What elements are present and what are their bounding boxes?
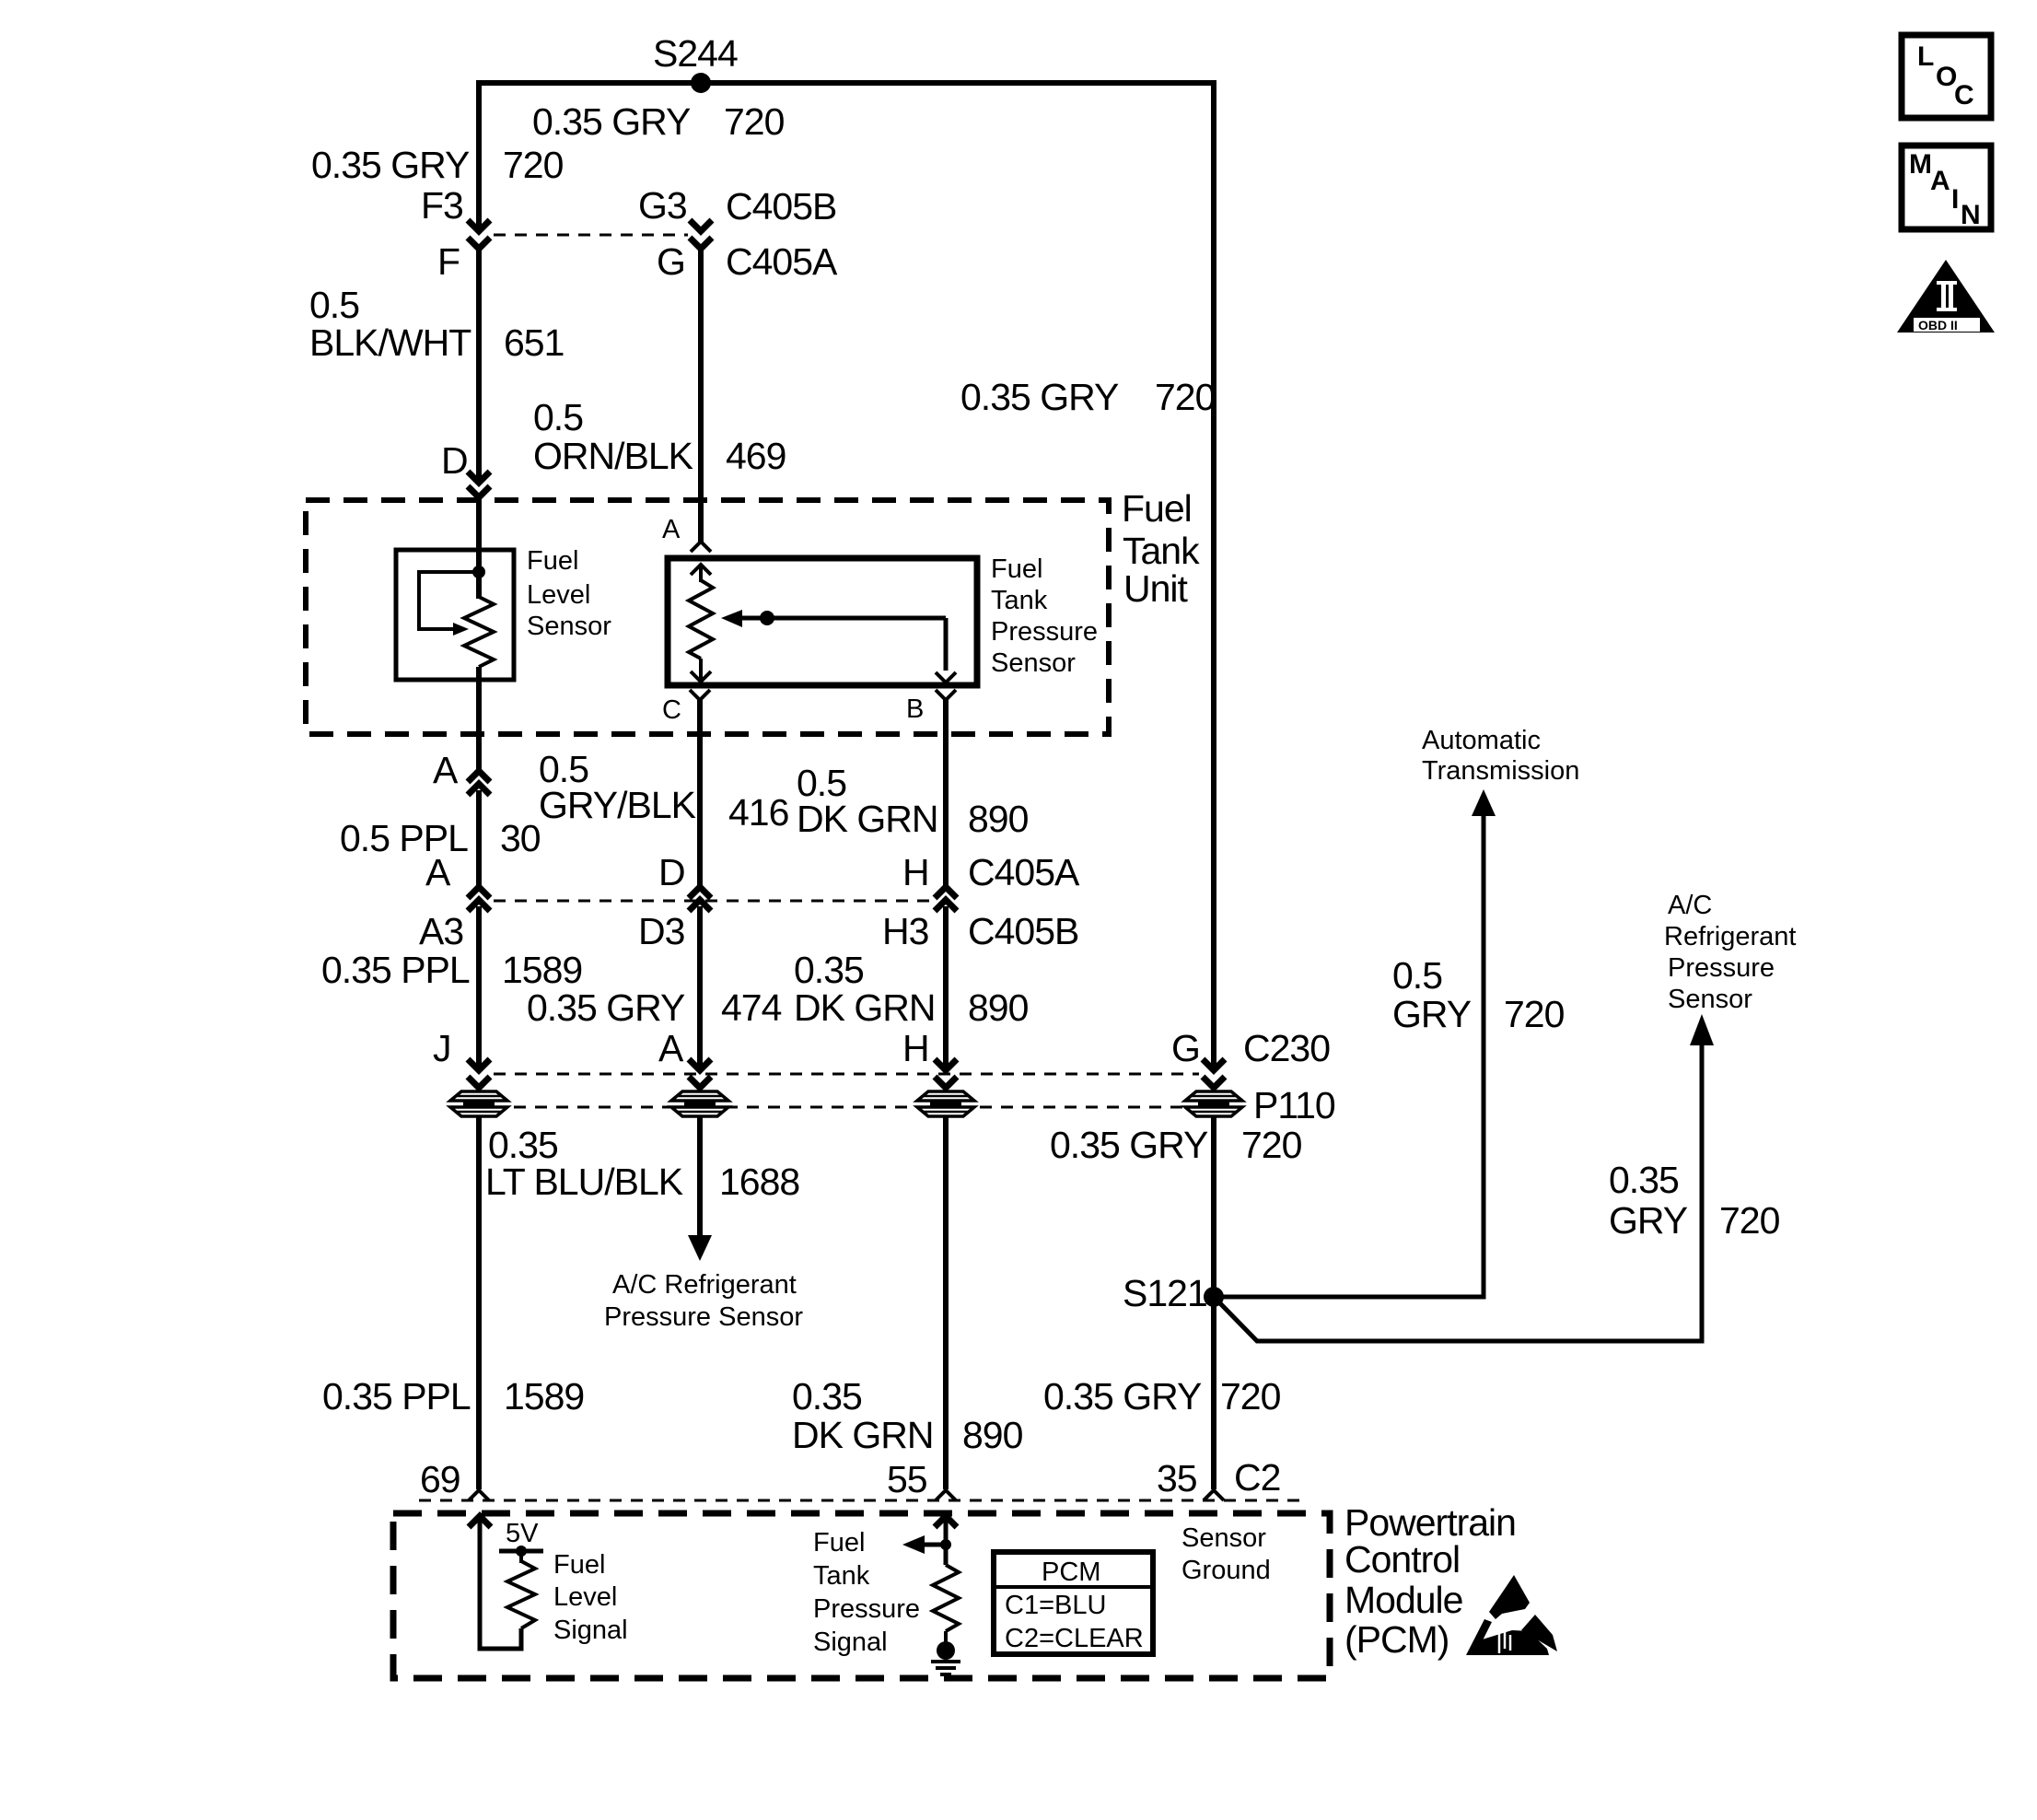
svg-text:0.35 PPL: 0.35 PPL <box>321 949 470 991</box>
svg-text:Level: Level <box>553 1582 617 1612</box>
svg-text:1688: 1688 <box>719 1161 799 1203</box>
PCM connector table box <box>994 1552 1153 1654</box>
svg-text:Fuel: Fuel <box>527 546 578 576</box>
connector C230 A arrow and fork <box>689 1059 711 1088</box>
automatic transmission label <box>1422 726 1579 786</box>
sensor ground label <box>1181 1523 1271 1585</box>
svg-text:35: 35 <box>1157 1457 1197 1499</box>
pin A label C405A <box>425 851 451 893</box>
value label 0.35 GRY 720 lower <box>1043 1375 1281 1417</box>
wire W1 C405B to C230 <box>476 906 482 1070</box>
svg-text:0.5: 0.5 <box>533 396 583 438</box>
wire W4 right vertical x=1318 <box>1211 80 1216 1070</box>
svg-text:DK GRN: DK GRN <box>792 1414 933 1456</box>
pin G label <box>657 240 685 283</box>
svg-text:S121: S121 <box>1123 1272 1207 1314</box>
svg-text:0.35 GRY: 0.35 GRY <box>532 100 691 143</box>
svg-text:Tank: Tank <box>813 1561 870 1591</box>
svg-text:5V: 5V <box>506 1519 539 1548</box>
resistor fuel level signal <box>507 1561 535 1628</box>
svg-text:890: 890 <box>968 986 1029 1029</box>
wire W3 pin B down to C405A <box>943 698 949 887</box>
grommet P110 dashed line <box>450 1106 1242 1109</box>
svg-text:0.35 PPL: 0.35 PPL <box>322 1375 471 1417</box>
wire W1 pin A down to C405A <box>476 790 482 887</box>
fuel tank pressure sensor label <box>991 554 1098 678</box>
svg-text:Fuel: Fuel <box>1122 487 1192 530</box>
wire W2 segment G down to fuel tank unit <box>698 247 704 543</box>
value label 0.35 GRY 720 wire1 <box>311 144 564 186</box>
svg-text:Level: Level <box>527 580 590 610</box>
svg-text:Automatic: Automatic <box>1422 726 1541 755</box>
node S121 label <box>1123 1272 1207 1314</box>
svg-text:P110: P110 <box>1253 1084 1335 1126</box>
svg-text:C405B: C405B <box>726 185 836 227</box>
svg-text:Signal: Signal <box>553 1616 628 1645</box>
svg-text:Pressure: Pressure <box>813 1594 920 1624</box>
svg-text:Module: Module <box>1344 1579 1462 1621</box>
fuel level sensor label <box>527 546 611 641</box>
svg-text:1589: 1589 <box>504 1375 584 1417</box>
arrow to AC refrigerant pressure sensor right <box>1690 1014 1714 1045</box>
svg-text:ORN/BLK: ORN/BLK <box>533 435 693 477</box>
connector C405 D fork and chevron up <box>689 887 711 911</box>
svg-text:720: 720 <box>1220 1375 1281 1417</box>
wire fuel level signal inside PCM <box>480 1520 521 1649</box>
svg-text:69: 69 <box>420 1458 460 1500</box>
wire resistor to ground <box>944 1631 948 1643</box>
svg-text:720: 720 <box>1241 1124 1302 1166</box>
svg-text:469: 469 <box>726 435 786 477</box>
svg-text:Sensor: Sensor <box>527 612 611 641</box>
svg-text:A: A <box>662 515 681 544</box>
node 5V tap dot <box>516 1546 527 1557</box>
connector C405A-B dashed line <box>494 900 931 903</box>
icon MAIN box <box>1902 146 1991 230</box>
pin F label <box>437 240 460 283</box>
svg-text:Control: Control <box>1344 1538 1460 1581</box>
svg-text:Ground: Ground <box>1181 1556 1271 1585</box>
value label 0.5 ORN/BLK 469 <box>533 396 786 477</box>
pin H3 label <box>882 910 928 952</box>
pin B fork below box <box>936 690 956 707</box>
svg-text:890: 890 <box>968 798 1029 840</box>
svg-text:D: D <box>441 439 468 482</box>
fuel tank pressure sensor box <box>668 558 977 685</box>
pin G label C230 <box>1171 1027 1200 1069</box>
PCM table title <box>1042 1557 1100 1587</box>
svg-text:0.5: 0.5 <box>309 284 359 326</box>
arrow to automatic transmission <box>1472 789 1496 816</box>
pin D label C405A <box>658 851 685 893</box>
svg-text:Pressure Sensor: Pressure Sensor <box>604 1302 803 1332</box>
pin H label C405A <box>902 851 929 893</box>
connector C230 H arrow and fork <box>935 1059 957 1088</box>
svg-text:GRY: GRY <box>1392 993 1472 1035</box>
svg-text:A: A <box>658 1027 684 1069</box>
wire W1 grommet to PCM <box>476 1117 482 1489</box>
wire W3 grommet to PCM <box>943 1117 949 1489</box>
connector C230 J arrow and fork <box>468 1059 490 1088</box>
svg-text:M: M <box>1909 149 1932 180</box>
value label 0.35 DK GRN 890 <box>794 949 1029 1029</box>
5V label <box>506 1519 539 1548</box>
svg-text:720: 720 <box>1155 376 1216 418</box>
svg-text:0.35 GRY: 0.35 GRY <box>1050 1124 1208 1166</box>
connector C405 G arrow chevron <box>690 220 712 231</box>
svg-text:Pressure: Pressure <box>1668 953 1775 983</box>
value label 0.5 PPL 30 <box>340 817 541 859</box>
svg-text:Tank: Tank <box>1123 530 1200 572</box>
svg-text:0.35 GRY: 0.35 GRY <box>527 986 685 1029</box>
svg-text:D3: D3 <box>638 910 684 952</box>
svg-text:651: 651 <box>504 321 564 364</box>
svg-text:LT BLU/BLK: LT BLU/BLK <box>485 1161 683 1203</box>
svg-text:720: 720 <box>724 100 785 143</box>
value label 0.35 GRY 720 wire2 <box>532 100 785 143</box>
connector C405A label <box>726 240 838 283</box>
pressure sensor internal bottom arrow <box>691 659 711 682</box>
icon LOC box <box>1902 35 1991 118</box>
fuel level signal label <box>553 1550 628 1645</box>
wire resistor to 5V rail <box>519 1551 523 1563</box>
fuel tank unit label <box>1122 487 1200 610</box>
pin G3 label <box>638 184 687 227</box>
fuel level sensor wiper tap dot <box>472 566 485 578</box>
svg-text:(PCM): (PCM) <box>1344 1618 1449 1661</box>
wire fuel tank pressure signal inside PCM <box>944 1520 949 1565</box>
pressure sensor internal top arrow <box>691 565 711 582</box>
svg-text:C: C <box>1954 80 1974 111</box>
value label 0.35 PPL 1589 <box>321 949 582 991</box>
grommet pass-through on wire W2 <box>671 1091 728 1116</box>
svg-text:G: G <box>657 240 685 283</box>
pin A double chevron up <box>468 771 490 795</box>
svg-text:Sensor: Sensor <box>1668 985 1752 1014</box>
fuel level sensor box <box>396 550 514 680</box>
PCM table row C1 <box>1005 1591 1106 1620</box>
grommet pass-through on wire W4 <box>1185 1091 1242 1116</box>
PCM connector dashed line <box>419 1499 1308 1502</box>
value label 0.35 GRY 474 <box>527 986 782 1029</box>
svg-text:Sensor: Sensor <box>1181 1523 1266 1553</box>
pin D arrow double chevron into fuel tank unit <box>468 472 490 497</box>
svg-text:L: L <box>1917 41 1934 72</box>
svg-text:A/C: A/C <box>1668 891 1712 920</box>
pressure sensor wiper drop to pin B <box>936 618 956 682</box>
svg-text:H: H <box>902 851 929 893</box>
fuel tank unit dashed enclosure <box>306 500 1109 734</box>
resistor fuel tank pressure sensor <box>689 580 713 659</box>
node S244 junction dot <box>691 73 711 93</box>
PCM connector fork pin 55 <box>936 1490 956 1500</box>
left arrow fuel tank pressure signal <box>902 1535 946 1554</box>
pin A label pressure sensor top <box>662 515 681 544</box>
AC refrigerant pressure sensor label right <box>1664 891 1796 1014</box>
AC refrigerant pressure sensor lead label <box>604 1270 803 1332</box>
svg-text:C2=CLEAR: C2=CLEAR <box>1005 1624 1144 1653</box>
connector C2 label <box>1234 1456 1280 1499</box>
arrow to AC refrigerant pressure sensor <box>688 1235 712 1261</box>
connector C405 H fork and chevron up <box>935 887 957 911</box>
svg-text:GRY/BLK: GRY/BLK <box>539 784 696 826</box>
wire top bus from S244 <box>476 80 1216 86</box>
connector C230 G arrow and fork <box>1203 1059 1225 1088</box>
connector C405 G fork <box>690 238 712 249</box>
pin F3 label <box>421 184 463 227</box>
PCM connector fork pin 69 <box>469 1490 489 1500</box>
PCM pin 55 chevron inside <box>935 1516 957 1527</box>
grommet P110 label <box>1253 1084 1335 1126</box>
svg-text:Transmission: Transmission <box>1422 756 1579 786</box>
svg-text:416: 416 <box>728 791 788 834</box>
value label 0.5 BLK/WHT 651 <box>309 284 564 364</box>
wire W1 fuel level sensor to pin A <box>476 667 482 771</box>
svg-text:J: J <box>433 1027 451 1069</box>
pin C fork below box <box>690 690 710 707</box>
svg-text:55: 55 <box>887 1458 927 1500</box>
value label 0.35 PPL 1589 lower <box>322 1375 584 1417</box>
svg-text:N: N <box>1961 200 1981 230</box>
svg-text:I: I <box>1951 184 1959 215</box>
svg-text:BLK/WHT: BLK/WHT <box>309 321 471 364</box>
svg-text:C1=BLU: C1=BLU <box>1005 1591 1106 1620</box>
node S121 junction dot <box>1204 1287 1224 1307</box>
connector C405 F fork <box>468 238 490 249</box>
svg-text:F: F <box>437 240 460 283</box>
grommet pass-through on wire W1 <box>450 1091 507 1116</box>
svg-text:0.35: 0.35 <box>792 1375 862 1417</box>
svg-text:F3: F3 <box>421 184 463 227</box>
svg-text:Refrigerant: Refrigerant <box>1664 922 1796 951</box>
svg-text:0.35: 0.35 <box>794 949 864 991</box>
svg-text:S244: S244 <box>653 32 738 75</box>
ground ball <box>937 1641 955 1660</box>
value label 0.5 GRY/BLK 416 <box>539 748 788 834</box>
svg-text:Pressure: Pressure <box>991 617 1098 647</box>
wire W4 grommet to PCM <box>1211 1117 1216 1489</box>
svg-text:C405A: C405A <box>968 851 1080 893</box>
connector C405 F arrow chevron <box>468 220 490 231</box>
svg-text:A: A <box>433 749 459 791</box>
grommet pass-through on wire W3 <box>917 1091 974 1116</box>
pin A label C230 <box>658 1027 684 1069</box>
svg-text:Unit: Unit <box>1123 567 1189 610</box>
svg-text:Fuel: Fuel <box>813 1528 865 1557</box>
svg-text:PCM: PCM <box>1042 1557 1100 1587</box>
svg-text:A3: A3 <box>419 910 463 952</box>
ground symbol lines <box>931 1662 960 1674</box>
PCM connector fork pin 35 <box>1204 1490 1224 1500</box>
5V rail line <box>499 1549 543 1554</box>
pin A label fuel tank unit <box>433 749 459 791</box>
wire W3 C405B to C230 <box>943 906 949 1070</box>
svg-text:A: A <box>425 851 451 893</box>
value label 0.5 DK GRN 890 <box>797 762 1029 840</box>
resistor fuel tank pressure signal <box>933 1565 959 1631</box>
svg-text:G3: G3 <box>638 184 687 227</box>
icon OBD II triangle <box>1897 260 1995 332</box>
pin H label C230 <box>902 1027 929 1069</box>
fuel tank pressure signal label <box>813 1528 920 1657</box>
ESD sensitive device icon <box>1466 1575 1557 1655</box>
svg-text:890: 890 <box>962 1414 1023 1456</box>
pin A chevron above pressure sensor <box>691 542 711 552</box>
value label 0.5 GRY 720 branch <box>1392 954 1565 1035</box>
pressure sensor wiper dot <box>760 611 774 625</box>
node fuel tank pressure signal dot <box>940 1539 951 1550</box>
value label 0.35 LT BLU/BLK 1688 <box>485 1124 799 1203</box>
pressure sensor wiper line with left arrowhead <box>721 610 946 627</box>
svg-text:G: G <box>1171 1027 1200 1069</box>
pin D3 label <box>638 910 684 952</box>
svg-text:Tank: Tank <box>991 586 1048 615</box>
wire S121 to AC refrigerant pressure sensor branch <box>1216 1044 1702 1341</box>
svg-text:C2: C2 <box>1234 1456 1280 1499</box>
wire W2 grommet to AC refrigerant arrow <box>697 1117 703 1239</box>
svg-text:C230: C230 <box>1243 1027 1330 1069</box>
value label 0.35 GRY 720 below P110 <box>1050 1124 1302 1166</box>
svg-text:H: H <box>902 1027 929 1069</box>
svg-text:A/C Refrigerant: A/C Refrigerant <box>612 1270 797 1300</box>
value label 0.35 GRY 720 right branch <box>1609 1159 1780 1242</box>
svg-text:720: 720 <box>503 144 564 186</box>
wire W1 upper segment x=520 <box>476 80 482 229</box>
svg-text:H3: H3 <box>882 910 928 952</box>
connector C405 A fork and chevron up <box>468 887 490 911</box>
svg-text:GRY: GRY <box>1609 1199 1688 1242</box>
svg-text:A: A <box>1930 166 1950 196</box>
svg-text:C: C <box>662 695 681 725</box>
wire W2 pin C down to C405A <box>697 698 703 887</box>
PCM pin 69 chevron inside <box>469 1516 491 1527</box>
connector C230 label <box>1243 1027 1330 1069</box>
svg-text:Fuel: Fuel <box>991 554 1042 584</box>
pin B label <box>906 694 924 724</box>
pin A3 label <box>419 910 463 952</box>
connector C405 F-G dashed line <box>494 234 688 237</box>
svg-text:720: 720 <box>1504 993 1565 1035</box>
pin D label <box>441 439 468 482</box>
pin 55 label <box>887 1458 927 1500</box>
svg-text:474: 474 <box>721 986 782 1029</box>
svg-text:C405A: C405A <box>726 240 838 283</box>
svg-text:0.5: 0.5 <box>1392 954 1442 997</box>
connector C230 dashed line <box>494 1073 1199 1076</box>
node S244 label <box>653 32 738 75</box>
value label 0.35 DK GRN 890 lower <box>792 1375 1023 1456</box>
svg-text:30: 30 <box>500 817 541 859</box>
svg-text:Sensor: Sensor <box>991 648 1076 678</box>
PCM dashed enclosure <box>393 1513 1330 1678</box>
fuel level sensor wiper arm <box>419 572 479 636</box>
pin 35 label <box>1157 1457 1197 1499</box>
svg-text:0.35 GRY: 0.35 GRY <box>1043 1375 1202 1417</box>
svg-text:0.35: 0.35 <box>1609 1159 1679 1201</box>
svg-text:DK GRN: DK GRN <box>794 986 935 1029</box>
connector C405B label row2 <box>968 910 1078 952</box>
svg-text:0.35 GRY: 0.35 GRY <box>311 144 470 186</box>
value label 0.35 GRY 720 wire4 <box>960 376 1216 418</box>
connector C405B label <box>726 185 836 227</box>
wire W2 C405B to C230 <box>697 906 703 1070</box>
svg-text:1589: 1589 <box>502 949 582 991</box>
svg-text:B: B <box>906 694 924 724</box>
svg-text:720: 720 <box>1719 1199 1780 1242</box>
svg-text:Signal: Signal <box>813 1627 888 1657</box>
PCM table row C2 <box>1005 1624 1144 1653</box>
svg-text:OBD II: OBD II <box>1918 318 1958 332</box>
wire W1 through fuel level sensor <box>476 497 482 599</box>
powertrain control module label <box>1344 1501 1516 1661</box>
connector C405A label row2 <box>968 851 1080 893</box>
wire W1 segment F to D <box>476 247 482 479</box>
pin J label C230 <box>433 1027 451 1069</box>
pin 69 label <box>420 1458 460 1500</box>
svg-text:D: D <box>658 851 685 893</box>
svg-text:C405B: C405B <box>968 910 1078 952</box>
wire S121 to automatic transmission branch <box>1214 815 1484 1297</box>
resistor fuel level sensor <box>464 597 494 667</box>
pin C label <box>662 695 681 725</box>
svg-text:Fuel: Fuel <box>553 1550 605 1580</box>
svg-text:0.35 GRY: 0.35 GRY <box>960 376 1119 418</box>
svg-text:DK GRN: DK GRN <box>797 798 937 840</box>
